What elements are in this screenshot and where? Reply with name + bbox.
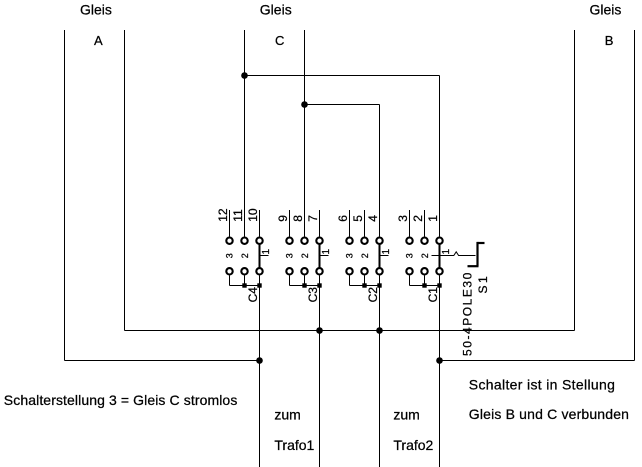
svg-text:3: 3 [225,253,235,258]
svg-text:12: 12 [216,208,230,222]
svg-text:Trafo2: Trafo2 [393,437,433,453]
svg-text:C: C [275,33,284,48]
svg-text:3: 3 [285,253,295,258]
svg-text:3: 3 [396,215,410,222]
svg-text:1: 1 [426,215,440,222]
svg-text:S1: S1 [476,274,490,294]
svg-text:3: 3 [345,253,355,258]
svg-text:Schalter ist in Stellung: Schalter ist in Stellung [469,377,615,393]
svg-text:zum: zum [274,407,300,423]
svg-text:1: 1 [261,249,272,255]
svg-text:7: 7 [306,215,320,222]
svg-text:6: 6 [336,215,350,222]
svg-text:Trafo1: Trafo1 [274,437,314,453]
svg-text:C4: C4 [246,287,260,303]
svg-text:Schalterstellung 3 = Gleis C s: Schalterstellung 3 = Gleis C stromlos [4,392,238,408]
svg-text:B: B [605,33,614,48]
svg-text:1: 1 [441,249,452,255]
svg-text:50-4POLE30: 50-4POLE30 [461,271,475,356]
svg-text:2: 2 [420,253,430,258]
svg-text:C1: C1 [426,287,440,303]
svg-text:8: 8 [291,215,305,222]
svg-text:1: 1 [321,249,332,255]
svg-text:2: 2 [360,253,370,258]
svg-text:4: 4 [366,215,380,222]
svg-text:2: 2 [300,253,310,258]
svg-text:3: 3 [405,253,415,258]
svg-text:10: 10 [246,208,260,222]
svg-text:11: 11 [231,209,245,222]
svg-text:2: 2 [411,215,425,222]
svg-text:1: 1 [381,249,392,255]
svg-text:Gleis: Gleis [80,2,112,18]
svg-text:Gleis: Gleis [260,2,292,18]
svg-text:C2: C2 [366,287,380,303]
svg-text:A: A [94,33,103,48]
svg-text:Gleis: Gleis [590,2,622,18]
svg-text:9: 9 [276,215,290,222]
svg-text:C3: C3 [306,287,320,303]
svg-text:2: 2 [240,253,250,258]
svg-text:zum: zum [393,407,419,423]
svg-text:5: 5 [351,215,365,222]
svg-text:Gleis B und C verbunden: Gleis B und C verbunden [469,406,629,422]
